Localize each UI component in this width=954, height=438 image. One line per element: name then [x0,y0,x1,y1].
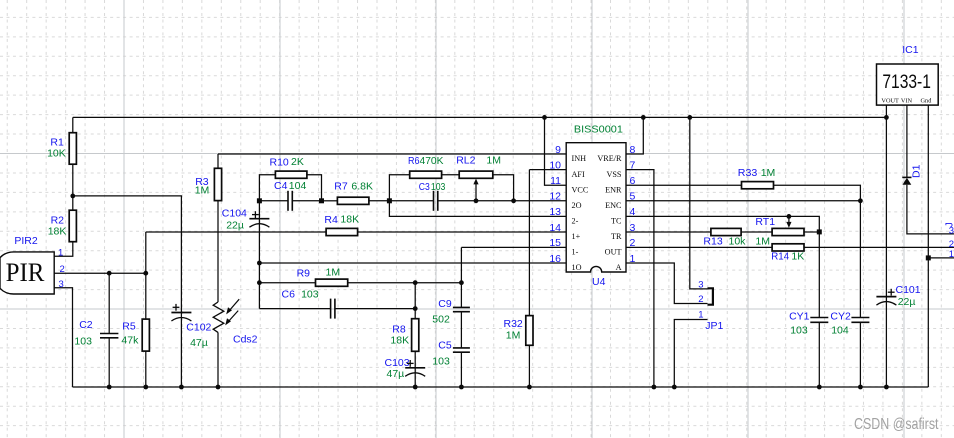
svg-text:103: 103 [74,336,92,348]
junction 2O row / RL2 wiper [474,198,479,203]
svg-text:R4: R4 [324,214,338,226]
capacitor C104 electrolytic [249,218,269,220]
regulator IC1 7133-1 body [877,64,939,105]
wire C4 to node [292,200,321,202]
wire 1- corner down to R9 row and C9 [460,247,462,307]
node square chain-mid (C4/R10 right) [319,198,324,203]
svg-text:A: A [616,263,622,272]
wire R32 bottom lead [528,345,530,387]
svg-text:R6: R6 [408,155,420,167]
wire RL2 right leg [493,175,514,201]
capacitor C4 [287,191,289,211]
svg-text:2: 2 [698,294,703,305]
wire R5 bottom lead [145,351,147,387]
svg-text:Gnd: Gnd [921,98,933,105]
wire C9 to C5 [460,312,462,348]
svg-text:103: 103 [301,288,319,300]
PIR2 sensor body [0,252,54,294]
wire OUT row (pin 2) [626,246,772,248]
svg-text:RT1: RT1 [755,216,775,228]
svg-text:103: 103 [790,325,808,337]
photoresistor Cds2 zigzag [213,302,224,332]
wire R9 row right [348,282,462,284]
wire VIN down to D1 [906,105,908,177]
svg-text:CY2: CY2 [830,311,851,323]
svg-text:R2: R2 [51,214,65,226]
svg-text:CSDN @safirst: CSDN @safirst [854,416,939,433]
junction TC / RT1 wiper [787,214,792,219]
svg-text:47µ: 47µ [190,337,208,349]
resistor R1 [69,133,76,165]
junction C103/ground [413,385,418,390]
svg-text:22µ: 22µ [898,296,916,308]
svg-text:OUT: OUT [605,248,622,257]
junction CY2/ground [858,385,863,390]
wire TR row (pin 3) [626,231,711,233]
capacitor CY2 [851,317,869,319]
resistor R3 [214,168,221,200]
svg-text:18K: 18K [48,226,67,238]
junction R9 row / C9 drop [459,280,464,285]
resistor R6 [410,171,442,178]
svg-text:C102: C102 [186,322,211,334]
svg-text:VOUT: VOUT [881,98,899,105]
junction ENC / R33 drop [858,198,863,203]
junction C5/ground [459,385,464,390]
wire C102 top lead [180,196,182,313]
svg-text:1M: 1M [195,185,210,197]
wire R10 right leg [307,175,322,201]
wire R8 bottom lead [414,351,416,368]
svg-text:13: 13 [549,206,561,218]
wire CY2 bottom lead [859,322,861,387]
svg-text:R13: R13 [703,235,722,247]
wire ENR row to R33 [626,184,742,186]
capacitor C101 electrolytic [876,296,896,298]
svg-text:1O: 1O [572,263,582,272]
junction PIR row / R5 and 1+ drop [143,271,148,276]
svg-text:1M: 1M [755,235,770,247]
junction C6 row / R8 [413,306,418,311]
wire VOUT down to C101 [885,105,887,297]
plus sign C102 [173,306,180,308]
wire R6 to RL2 [442,174,460,176]
svg-text:JP1: JP1 [705,320,723,332]
svg-text:18K: 18K [340,213,359,225]
svg-text:TC: TC [611,217,622,226]
plus sign C103 [407,362,414,364]
svg-text:INH: INH [572,154,587,163]
svg-text:103: 103 [431,181,446,193]
wire R33 to corner down [774,185,861,317]
wire R9 row left [259,282,315,284]
wire 1O row (pin 16) [259,262,566,264]
wire R6 left leg [389,175,409,201]
wire R5 top lead [145,273,147,319]
wire AFI drop to R32 [528,170,530,316]
svg-text:1M: 1M [486,154,501,166]
junction VSS/ground [652,385,657,390]
wire C5 bottom lead [460,352,462,387]
junction PIR row / C2 [107,271,112,276]
svg-text:18K: 18K [390,334,409,346]
svg-text:D1: D1 [911,164,923,178]
node square Gnd line / connector pin 1 [926,255,931,260]
svg-text:1M: 1M [761,167,776,179]
svg-text:1: 1 [698,310,703,321]
wire node to C102 drop [73,195,182,198]
wire node to C4 [259,200,288,202]
svg-text:C9: C9 [438,298,452,310]
node square chain-left (C4/R10/C104) [257,198,262,203]
svg-text:9: 9 [555,144,561,156]
svg-text:47k: 47k [121,335,139,347]
label D1 [911,164,923,178]
resistor R7 [337,197,369,204]
junction C102/ground [179,385,184,390]
svg-text:R10: R10 [270,157,289,169]
svg-text:3: 3 [698,280,703,291]
wire C103 bottom lead [414,368,416,387]
svg-text:14: 14 [549,222,561,234]
svg-text:470K: 470K [420,155,444,167]
junction R9 row / R8 [413,280,418,285]
wire JP1 pin 1 to ground [674,320,707,388]
wire node to R7 [322,200,338,202]
svg-text:103: 103 [432,355,450,367]
diode D1 [902,176,911,178]
svg-text:2O: 2O [572,201,582,210]
svg-text:3: 3 [949,225,954,236]
svg-text:PIR2: PIR2 [14,235,38,247]
wire C104 bottom lead [258,219,260,309]
svg-text:C3: C3 [419,181,430,193]
light arrow 2 (Cds2) [228,311,239,323]
wire C2 top lead [108,273,110,333]
capacitor C103 electrolytic [405,367,425,369]
svg-text:10K: 10K [47,148,66,160]
svg-text:C101: C101 [896,284,921,296]
wire R1 bottom to node [72,164,74,210]
svg-text:PIR: PIR [6,258,45,287]
junction on VCC rail at VRE/R drop [641,115,646,120]
wire ground bus [73,386,929,388]
wire VRE/R to VCC rail [626,117,643,154]
plus sign C104 [252,214,259,216]
wire RT1 node down to CY1 [818,232,820,318]
svg-text:RL2: RL2 [456,154,475,166]
junction on VCC rail at JP1-3 drop [687,115,692,120]
capacitor C3 [433,191,435,211]
wire OUT row to edge connector pin 2 [804,246,954,248]
wire CY1 bottom lead [818,322,820,387]
resistor R5 [142,319,149,351]
resistor R13 [711,228,741,235]
junction CY1/ground [817,385,822,390]
wire node to C3 [389,200,433,202]
svg-text:C2: C2 [79,319,93,331]
wire VCC rail corner down to R1 [72,117,74,132]
svg-text:U4: U4 [592,276,606,288]
svg-text:Cds2: Cds2 [233,334,258,346]
svg-text:10k: 10k [729,235,747,247]
resistor R9 [316,279,348,286]
svg-text:R5: R5 [122,320,136,332]
wire ENC row (pin 5) [626,200,860,202]
junction R32/ground [527,385,532,390]
junction 2O row / RL2 right [511,198,516,203]
resistor R32 [526,316,533,346]
wire Cds2 bottom lead [217,332,219,387]
wire C102 bottom lead [180,313,182,388]
light arrow 1 (Cds2) [229,299,240,311]
svg-text:2-: 2- [572,217,579,226]
junction Cds2/ground [216,385,221,390]
wire PIR pin3 to ground [54,288,72,387]
svg-text:22µ: 22µ [226,219,244,231]
svg-text:15: 15 [549,237,561,249]
svg-text:R33: R33 [738,167,758,179]
wire R13 to RT1 [741,231,772,233]
svg-text:ENC: ENC [605,201,622,210]
resistor R2 [69,210,76,242]
wire R3 top corner to INH row [217,154,219,168]
svg-text:11: 11 [550,175,561,187]
wire 1- row (pin 15) [461,246,566,248]
wire VSS to ground [626,170,654,387]
capacitor C9 [453,306,470,308]
svg-text:VCC: VCC [572,185,589,194]
wire 1+ row drop to PIR row [145,232,147,273]
svg-text:10: 10 [549,159,561,171]
wire VCC top rail [73,116,887,118]
wire C6 row left [259,308,330,310]
svg-text:AFI: AFI [572,170,585,179]
wire C101 bottom lead [885,297,887,387]
wire TC row (pin 4) [626,215,789,217]
wire D1 to edge connector pin 3 [907,185,954,234]
svg-text:3: 3 [59,279,64,290]
svg-text:CY1: CY1 [789,311,810,323]
junction C104/R9 row [257,280,262,285]
RL2 wiper arrow [475,184,477,201]
node square RT1 right / wiper [817,229,822,234]
svg-text:VRE/R: VRE/R [597,154,622,163]
wire R8 top lead [414,283,416,319]
wire R7 to node [369,200,390,202]
potentiometer RT1 body [772,228,804,235]
svg-text:1: 1 [58,248,63,259]
resistor R8 [412,319,419,352]
svg-text:104: 104 [289,180,307,192]
svg-text:C104: C104 [222,208,247,220]
wire C2 bottom lead [108,338,110,387]
junction node R1/R2 [70,194,75,199]
junction C104/1O row [257,261,262,266]
junction R5/ground [143,385,148,390]
capacitor C5 [453,347,470,349]
wire R3 bottom to Cds2 [217,201,219,303]
wire VCC pin row (pin 11) [545,117,567,185]
wire R10 left leg [259,175,275,201]
svg-text:502: 502 [432,313,450,325]
svg-text:104: 104 [831,325,849,337]
wire Gnd pin down to ground bus [927,105,929,387]
capacitor C102 electrolytic [171,312,191,314]
wire TC node to corner down [789,216,819,232]
svg-text:6.8K: 6.8K [351,180,373,192]
node square R7/R6/C3 [387,198,392,203]
capacitor CY1 [810,317,828,319]
junction on VCC rail at 7133 VOUT [884,115,889,120]
svg-text:1M: 1M [326,267,341,279]
capacitor C2 [100,333,118,335]
svg-text:1K: 1K [791,251,804,263]
svg-text:R14: R14 [771,251,789,263]
svg-text:2K: 2K [291,156,304,168]
junction C101/ground [884,385,889,390]
wire 1+ row (pin 14) [146,231,566,233]
op-amp IC U4 BISS0001 body [566,143,626,272]
resistor R33 [742,182,774,189]
svg-text:C5: C5 [438,339,452,351]
wire INH row (pin 9) [218,153,566,155]
svg-text:12: 12 [549,191,561,203]
junction C2/ground [107,385,112,390]
wire C6 row right [335,308,415,310]
potentiometer RL2 body [459,171,493,178]
resistor R4 [326,228,358,235]
svg-text:1: 1 [949,249,954,260]
wire 2- row (pin 13) [389,201,566,217]
connector JP1 bracket [708,288,713,304]
resistor R10 [275,171,307,178]
junction on VCC rail at VCC-pin drop [542,115,547,120]
svg-text:BISS0001: BISS0001 [574,124,623,136]
svg-text:VSS: VSS [606,170,621,179]
plus sign C101 [888,291,895,293]
RT1 wiper arrow [788,216,790,222]
wire RT1 right leg [804,231,819,233]
svg-text:47µ: 47µ [387,368,405,380]
svg-text:16: 16 [549,253,561,265]
wire AFI row (pin 10) [529,169,566,171]
svg-text:7133-1: 7133-1 [882,71,931,93]
svg-text:IC1: IC1 [902,44,919,56]
wire C104 node to plate [258,201,260,219]
svg-text:1M: 1M [506,329,521,341]
wire PIR pin2 row [54,272,146,274]
svg-text:ENR: ENR [605,185,622,194]
svg-text:R32: R32 [504,318,523,330]
svg-text:1+: 1+ [572,232,581,241]
svg-text:C6: C6 [282,288,296,300]
resistor R14 [772,244,804,251]
svg-text:TR: TR [611,232,622,241]
svg-text:1-: 1- [572,248,579,257]
svg-text:VIN: VIN [901,98,913,105]
wire C3 to IC pin 12 [438,200,566,202]
wire R2 bottom to PIR pin1 [54,242,73,257]
junction JP1-1/ground [672,385,677,390]
wire VCC rail down to JP1 pin 3 [690,117,708,289]
svg-text:R7: R7 [334,181,348,193]
capacitor C6 [330,299,332,319]
svg-text:C4: C4 [274,180,288,192]
wire A row (pin 1) to JP1 pin 2 [626,263,708,304]
svg-text:R9: R9 [297,267,311,279]
label J (edge connector) [945,222,954,227]
wire stub to edge connector pin 1 [928,257,954,259]
